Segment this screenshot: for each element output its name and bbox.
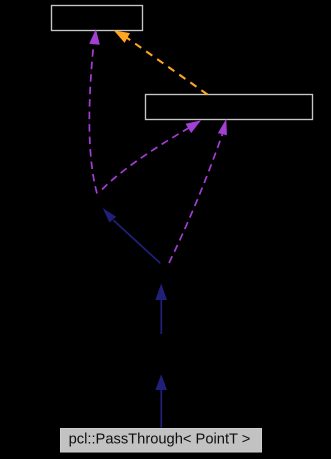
svg-text:pcl::PassThrough< PointT >: pcl::PassThrough< PointT >	[69, 432, 251, 448]
